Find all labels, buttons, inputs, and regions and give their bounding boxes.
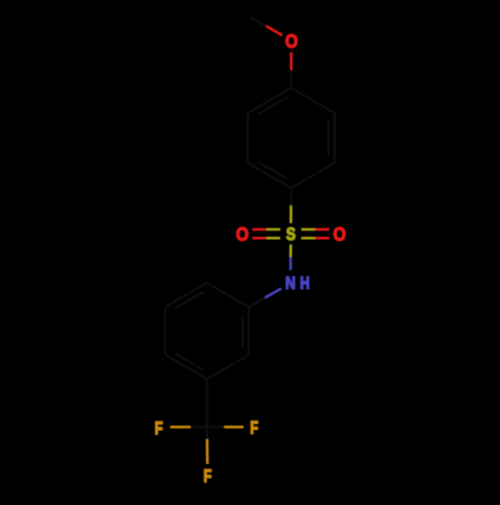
atom label F left — [156, 422, 163, 435]
S=O right double bond — [301, 228, 315, 231]
bond O-C1 (ring1 top) — [290, 52, 293, 70]
bond N-C1(ring2) — [265, 288, 281, 297]
atom label O (sulfonyl left) — [237, 227, 248, 240]
bond O-CH3 (methyl) — [266, 26, 282, 35]
atom label F bottom — [204, 470, 211, 483]
ring1 double-bond inner lines — [258, 97, 288, 114]
atom label F right — [251, 421, 258, 434]
bond C-F bottom — [206, 427, 209, 439]
ring2 benzene (trifluoromethylphenyl) — [207, 283, 249, 307]
atom label H (on N) — [301, 277, 309, 289]
bond C4(ring1)-S — [290, 188, 293, 206]
bond C-F right — [207, 426, 224, 429]
atom label S (sulfonyl) — [286, 228, 295, 240]
S=O left double bond — [252, 228, 266, 231]
bond C-F left — [190, 426, 207, 429]
bond S-N — [289, 244, 292, 257]
atom label O (methoxy) — [286, 34, 297, 47]
atom label N (sulfonamide) — [286, 277, 294, 289]
ring2 double-bond inner lines — [175, 292, 203, 308]
ring1 benzene (methoxyphenyl) — [248, 88, 291, 113]
bond C3(ring2)-C(CF3) — [206, 379, 209, 427]
atom label O (sulfonyl right) — [334, 227, 345, 240]
